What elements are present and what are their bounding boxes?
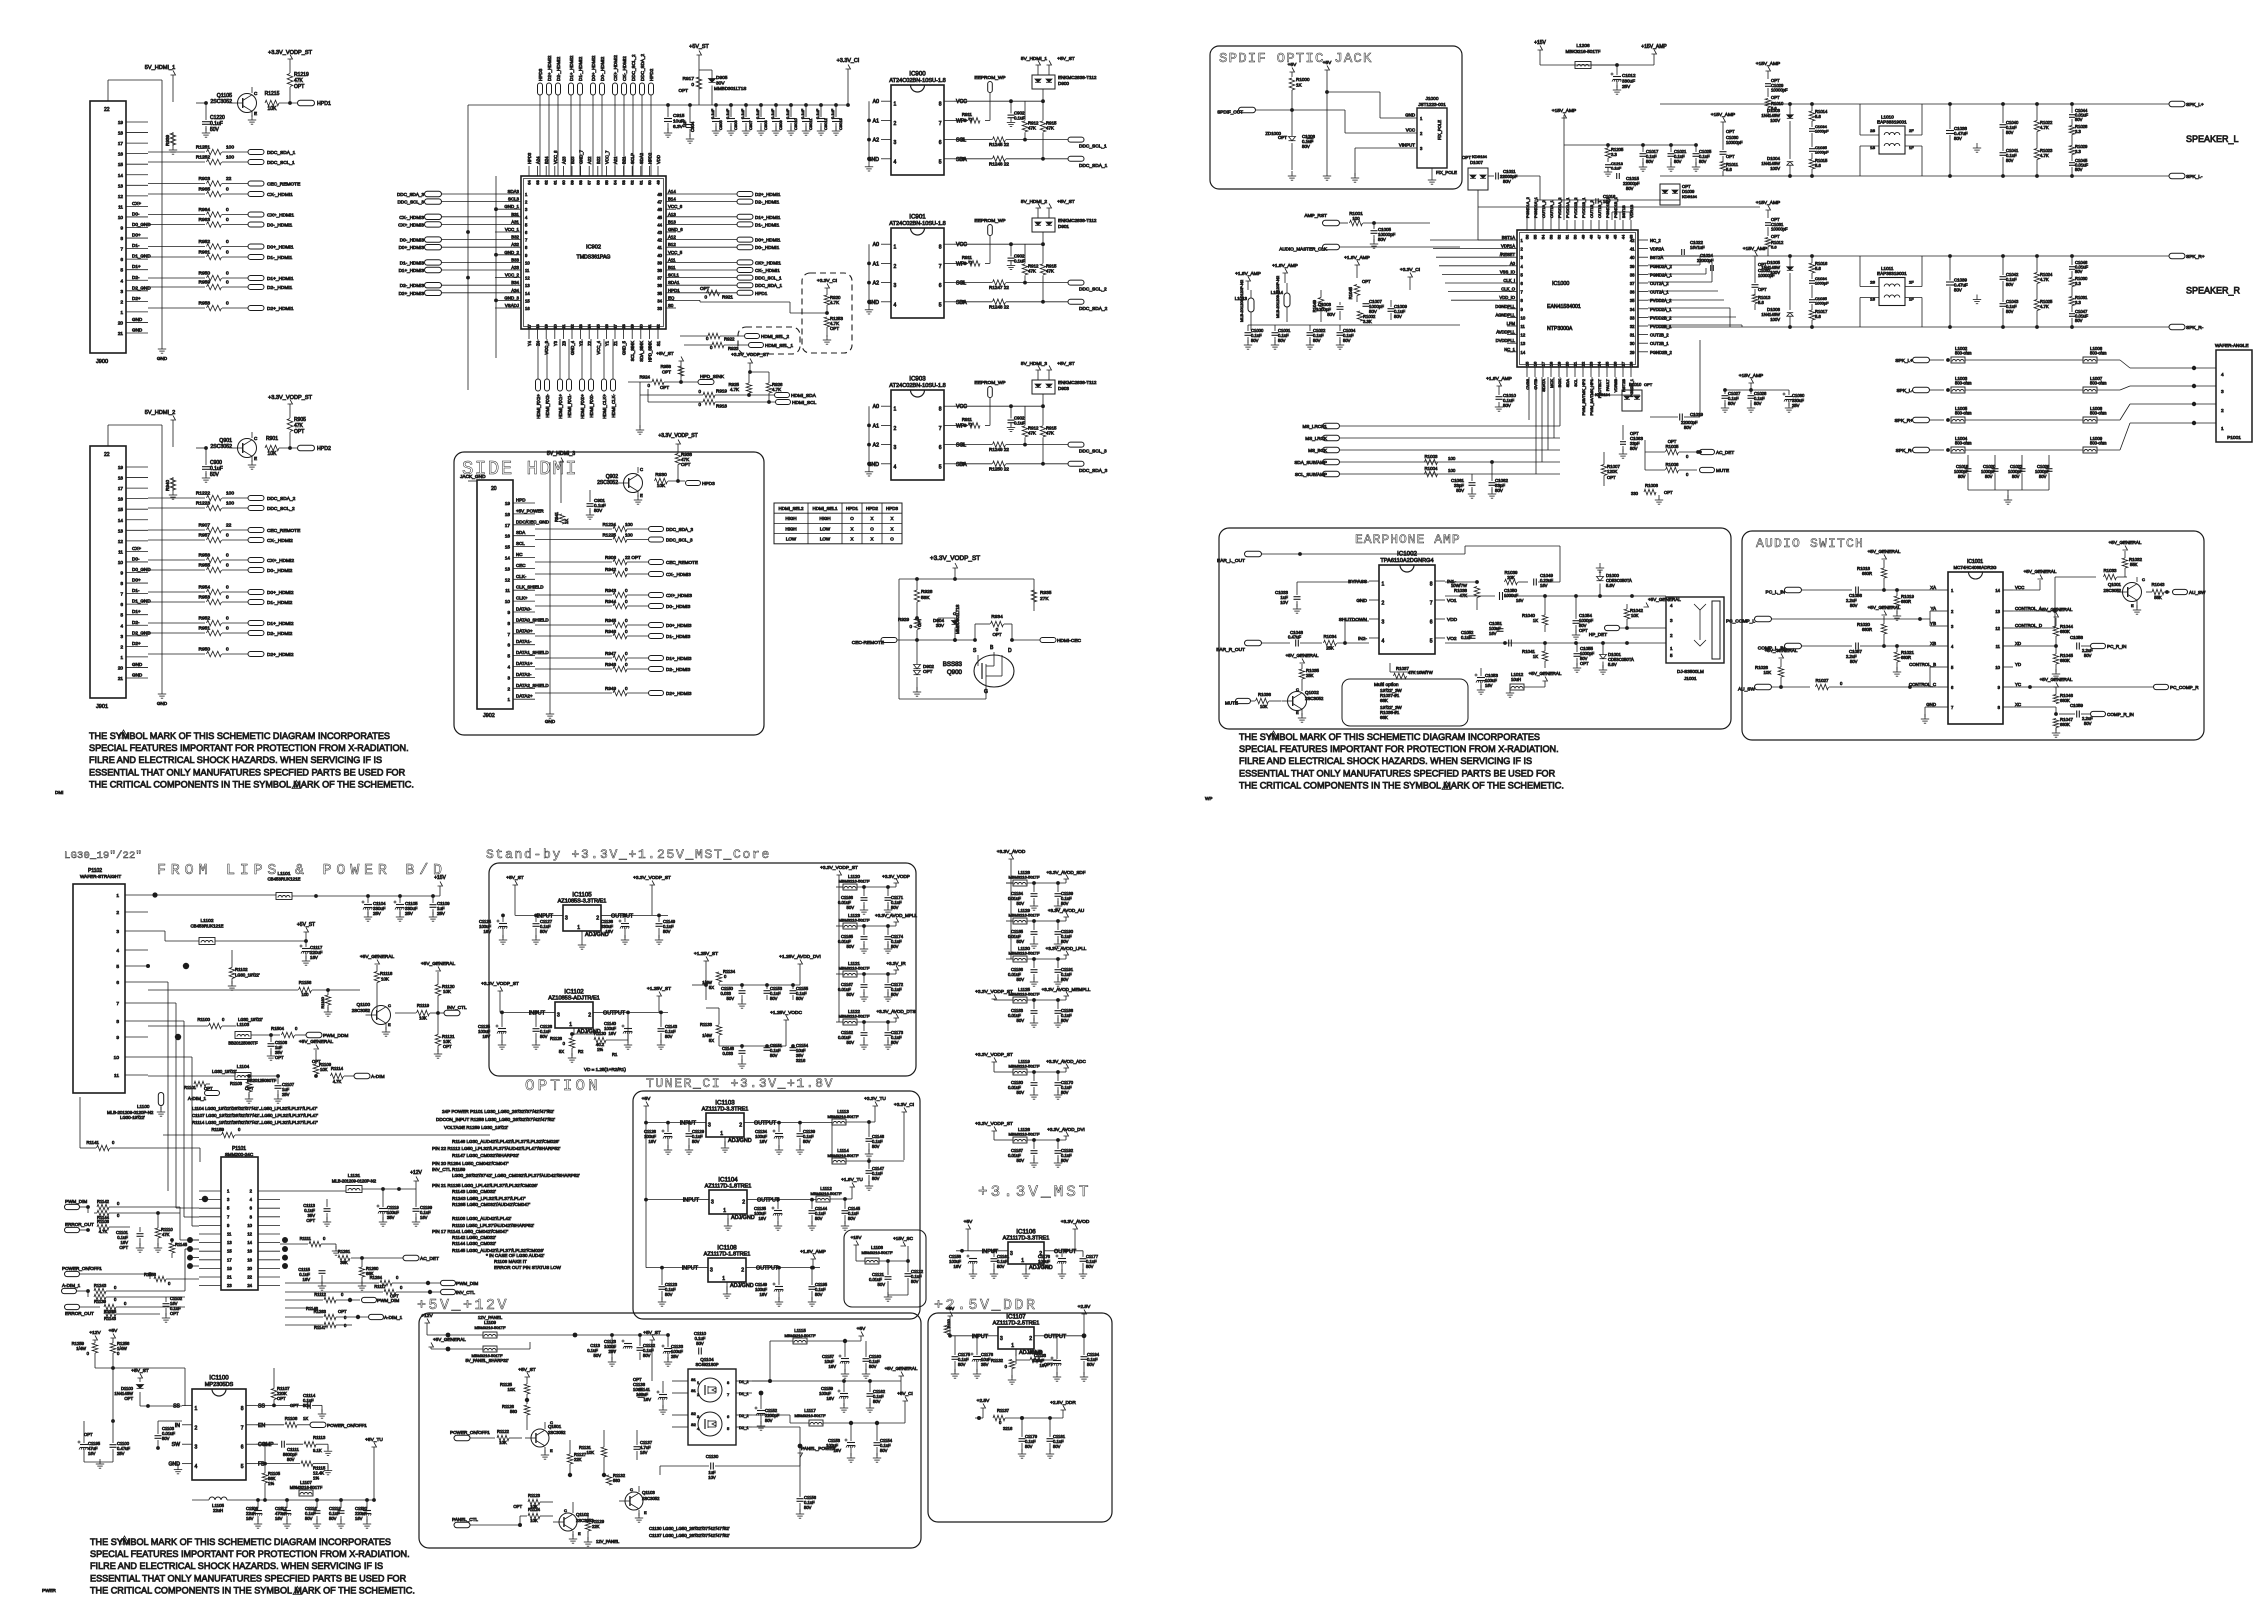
power +3.3V_VODP_ST (DVI) [975, 1121, 1013, 1140]
svg-text:AGNDPLL: AGNDPLL [1495, 312, 1515, 317]
svg-text:3.3: 3.3 [2075, 149, 2081, 154]
capacitor C1011 22000pF 50V [1488, 169, 1540, 184]
svg-text:0: 0 [226, 533, 229, 539]
svg-text:20K: 20K [1507, 575, 1515, 580]
svg-text:+3.3V_AVOD_SDF: +3.3V_AVOD_SDF [1046, 870, 1085, 875]
power +3.3V_VODP_ST (sel) [731, 352, 769, 372]
svg-text:+5V_ST: +5V_ST [506, 875, 524, 881]
net flag SPK_L+ (wafer) [1895, 357, 1950, 364]
capacitor C1106 1uF 35V OPT [267, 1033, 288, 1060]
capacitor C1007 1000pF 50V [1363, 299, 1385, 314]
svg-text:1K: 1K [1296, 83, 1303, 88]
svg-text:E: E [388, 1022, 391, 1027]
power +5V_GENERAL (Q1002) [1286, 653, 1319, 663]
svg-text:SPEAKER_L: SPEAKER_L [2186, 134, 2239, 144]
svg-text:20: 20 [491, 486, 497, 492]
svg-text:* IN CASE OF LG30 AUD42': * IN CASE OF LG30 AUD42' [486, 1253, 544, 1258]
svg-text:+5V_ST: +5V_ST [1057, 361, 1075, 367]
svg-text:2: 2 [120, 299, 123, 304]
power +5V_GENERAL (Q1100) [360, 954, 395, 964]
power +5V_GENERAL (Q1001) [2109, 540, 2142, 550]
resistor R963 0 [148, 217, 248, 227]
resistor R1110 vertical [154, 1211, 174, 1252]
svg-text:3: 3 [2221, 389, 2224, 395]
title EARPHONE AMP [1355, 532, 1461, 547]
svg-text:B32: B32 [511, 235, 519, 240]
svg-text:R1128: R1128 [550, 1036, 563, 1041]
box Stand-by [489, 863, 916, 1076]
svg-text:L1104: L1104 [237, 1064, 250, 1069]
svg-text:3: 3 [120, 634, 123, 639]
svg-text:CX+_HDMI3: CX+_HDMI3 [666, 593, 692, 598]
svg-text:ENKMC2838-T112: ENKMC2838-T112 [1058, 218, 1097, 223]
svg-text:SPK_L-: SPK_L- [2186, 174, 2203, 180]
power +15V (lips) [434, 875, 446, 896]
wire left bus IC901 [865, 244, 873, 314]
svg-text:4.7K: 4.7K [2040, 153, 2049, 158]
svg-text:1: 1 [569, 1022, 572, 1028]
svg-text:2: 2 [1382, 601, 1385, 607]
svg-text:R934: R934 [991, 614, 1003, 620]
capacitor C1033 1uF 10V [1275, 582, 1369, 613]
svg-text:D0-_HDMI2: D0-_HDMI2 [600, 56, 605, 81]
resistor 47K OPT vertical [287, 404, 306, 450]
IC902 right pins 48-33 [657, 189, 683, 311]
power +3.3V_AVOD_SDF [1046, 870, 1085, 883]
svg-text:10K: 10K [320, 1067, 328, 1072]
svg-text:+3.3V_AVOD_MEMPLL: +3.3V_AVOD_MEMPLL [1042, 987, 1091, 992]
box +5V_+12V [419, 1313, 921, 1548]
svg-text:IC1108: IC1108 [717, 1245, 737, 1252]
net flag DDC_SDA_1 (IC900) [1068, 156, 1108, 169]
capacitor C1110 0.1uF 50V (Q1104) [694, 1331, 707, 1355]
net flag HDMI_SDA [775, 393, 817, 400]
svg-text:39: 39 [657, 260, 662, 265]
svg-text:MBM3216-501TF: MBM3216-501TF [827, 1114, 859, 1119]
resistor R1038 47K vertical [1445, 580, 1480, 610]
svg-text:R922: R922 [724, 337, 735, 342]
svg-text:SCL3: SCL3 [508, 197, 520, 202]
capacitor C1103 0.01uF 50V [155, 1421, 183, 1450]
svg-text:+12V: +12V [410, 1170, 422, 1176]
svg-text:D1-_HDMI1: D1-_HDMI1 [755, 222, 780, 227]
svg-text:R946: R946 [605, 629, 616, 634]
svg-text:3.3: 3.3 [2075, 281, 2081, 286]
net flag DDC_SDA_1 [248, 150, 296, 157]
svg-text:7: 7 [939, 264, 942, 270]
svg-text:25V: 25V [1622, 84, 1631, 89]
svg-text:23: 23 [1589, 361, 1594, 366]
svg-text:NC: NC [516, 552, 523, 557]
svg-text:50V: 50V [1061, 1090, 1069, 1095]
ground IC1001 [1921, 707, 1938, 723]
svg-text:35V: 35V [387, 1215, 395, 1220]
capacitor C1172 [884, 974, 904, 1001]
svg-text:+3.3V_TU: +3.3V_TU [864, 1096, 886, 1102]
svg-text:16V: 16V [760, 1292, 768, 1297]
svg-text:SDA_SINK: SDA_SINK [639, 341, 644, 362]
svg-text:17: 17 [1541, 361, 1546, 366]
svg-text:OPT: OPT [306, 1218, 315, 1223]
svg-text:50V: 50V [2039, 474, 2047, 479]
svg-text:16: 16 [247, 1249, 252, 1254]
diode D1000 CD53C050TA 5.6V [1596, 563, 1632, 598]
note C1130/C1137 options [649, 1526, 730, 1538]
svg-text:R1119: R1119 [417, 1003, 430, 1008]
power +3.3V_AVOD (right col) [997, 849, 1026, 959]
svg-text:4.7K: 4.7K [2040, 304, 2049, 309]
svg-text:LG30_19'/22': LG30_19'/22' [212, 1069, 237, 1074]
resistor R1136 OPT diagonal [1016, 1350, 1057, 1367]
net flag SPK_R- (wafer) [1896, 447, 1950, 454]
svg-text:21: 21 [118, 676, 124, 681]
capacitor C1131 0.1uF 50V (top) [587, 1333, 616, 1366]
svg-text:A13: A13 [668, 212, 676, 217]
svg-text:15: 15 [118, 162, 124, 167]
svg-text:50V: 50V [1754, 401, 1762, 406]
svg-text:0.1uF: 0.1uF [830, 108, 835, 119]
svg-text:YB: YB [1930, 621, 1936, 626]
resistor R1040 1K [1522, 594, 1548, 632]
svg-text:+5V_GENERAL: +5V_GENERAL [1868, 605, 1901, 610]
svg-text:47K: 47K [1046, 125, 1054, 130]
resistor R1108 4.7K [97, 1219, 130, 1234]
svg-text:39: 39 [1630, 264, 1635, 269]
ground Q1105 [248, 115, 256, 124]
capacitor C1135 100uF 16V [754, 1198, 782, 1231]
power +12V (box) [421, 1313, 455, 1337]
svg-text:680K: 680K [2060, 629, 2070, 634]
capacitor C1016 [1596, 194, 1616, 204]
net flag HPD_SINK [698, 374, 725, 385]
svg-text:55: 55 [604, 180, 609, 185]
svg-text:4: 4 [1382, 638, 1385, 644]
svg-text:SCL: SCL [516, 541, 525, 546]
svg-text:D0-: D0- [132, 211, 140, 216]
svg-text:2: 2 [2221, 408, 2224, 414]
resistor R1134 0 1/4W 5X [702, 969, 800, 990]
svg-text:0.1uF: 0.1uF [1461, 635, 1472, 640]
svg-text:D0+_HDMI2: D0+_HDMI2 [591, 55, 596, 81]
resistor R1133 1/4W 5X [700, 1008, 786, 1046]
svg-text:50V: 50V [2075, 318, 2083, 323]
svg-text:D1-: D1- [132, 243, 140, 248]
net flag HP_DET [1589, 625, 1666, 637]
capacitor C1153b 100uF 16V [826, 1423, 855, 1462]
svg-text:50V: 50V [1017, 901, 1025, 906]
capacitor C1194 0.1uF 50V [1080, 1336, 1100, 1381]
svg-text:35: 35 [1630, 298, 1635, 303]
svg-text:4: 4 [1670, 603, 1673, 608]
svg-text:/RESET: /RESET [1500, 252, 1516, 257]
svg-text:R953: R953 [199, 595, 211, 601]
svg-text:63: 63 [535, 180, 540, 185]
svg-text:45: 45 [1613, 234, 1618, 239]
net flag CX+_HDMI3 (side) [649, 593, 693, 599]
net flag SPK_L- [2169, 173, 2203, 180]
svg-text:R955: R955 [199, 563, 211, 569]
svg-text:+5V_GENERAL: +5V_GENERAL [2024, 569, 2057, 574]
svg-text:+3.3V_VODP_ST: +3.3V_VODP_ST [481, 981, 519, 987]
svg-text:11: 11 [525, 268, 530, 273]
inductor L1012 10uH [1510, 672, 1545, 690]
net flag D0+_HDMI3 (side) [649, 623, 692, 629]
svg-text:GND_2: GND_2 [504, 250, 519, 255]
power +2.5V_DDR (bottom) [1022, 1400, 1076, 1418]
svg-text:3: 3 [894, 445, 897, 451]
svg-text:R1144 LG30_CM032': R1144 LG30_CM032' [452, 1241, 496, 1246]
svg-text:VDR1A: VDR1A [1501, 244, 1515, 249]
svg-text:R954: R954 [199, 585, 211, 591]
svg-text:OPT: OPT [1758, 262, 1767, 267]
box Multi option [1342, 679, 1468, 726]
svg-text:3216: 3216 [1003, 1426, 1013, 1431]
svg-text:PIN 17 R1141 LG50_CM042'/CM: PIN 17 R1141 LG50_CM042'/CM047' [432, 1229, 508, 1234]
svg-text:50V: 50V [1061, 939, 1069, 944]
svg-text:50V: 50V [1646, 159, 1654, 164]
net flag CX-_HDMI3 (side) [649, 572, 692, 578]
svg-text:20: 20 [118, 665, 124, 670]
svg-text:IC1100: IC1100 [209, 1375, 229, 1382]
svg-text:DDC_SCL_1: DDC_SCL_1 [755, 276, 782, 281]
net flag bundle HDMI_RX outputs (vertical lozenges) [536, 339, 616, 419]
ground spdif caps [1288, 170, 1331, 180]
svg-text:0: 0 [226, 616, 229, 622]
power +5V_ST (sink) [656, 351, 683, 382]
wire speaker rails SPEAKER_L [1660, 104, 2169, 176]
svg-text:OUT1A_2: OUT1A_2 [1541, 199, 1546, 218]
svg-text:25V: 25V [117, 1451, 125, 1456]
resistor R1131 10K vertical [579, 1430, 607, 1477]
svg-text:50V: 50V [1017, 1018, 1025, 1023]
svg-text:SPK_L-: SPK_L- [1896, 388, 1913, 394]
IC regulator IC1102 AZ1085S-ADJTR/E1 [529, 989, 626, 1036]
svg-text:58K: 58K [921, 595, 930, 601]
svg-text:VCC_6: VCC_6 [668, 204, 683, 209]
capacitor C915 10uF 6.3V [664, 103, 685, 137]
svg-text:B23: B23 [570, 156, 575, 164]
power +5V_CI [897, 1391, 912, 1423]
svg-text:8: 8 [939, 245, 942, 251]
svg-text:D0_GND: D0_GND [132, 567, 151, 572]
net flag SPK_L- (wafer) [1896, 387, 1949, 394]
net flag HDMI_SCL [776, 400, 817, 407]
svg-text:20: 20 [552, 324, 557, 329]
svg-text:R959: R959 [199, 280, 211, 286]
svg-text:8: 8 [116, 1019, 119, 1025]
text SPEAKER_R [2186, 286, 2241, 296]
capacitor C1184 [1008, 883, 1038, 910]
resistor R956 0 [148, 553, 248, 563]
svg-text:25K: 25K [1306, 673, 1314, 678]
svg-text:330uF: 330uF [1622, 79, 1635, 84]
svg-text:17: 17 [527, 324, 532, 329]
resistor R1105 56K 1% vertical [262, 1444, 280, 1502]
capacitor C1132 0.1uF 50V (top) [582, 1333, 668, 1360]
jack J1001 DJ-S3500LM [1666, 597, 1724, 681]
capacitor C1149 0.1uF 50V [655, 914, 676, 945]
svg-text:50V: 50V [665, 1034, 673, 1039]
svg-text:D2+: D2+ [132, 296, 141, 301]
svg-text:B11: B11 [668, 265, 676, 270]
svg-text:68K: 68K [1380, 715, 1388, 720]
resistor R938 47K OPT vertical [675, 444, 692, 483]
capacitor C1180 [1008, 1072, 1038, 1099]
resistor R1127 22K vertical [567, 1440, 586, 1477]
svg-text:22uH: 22uH [213, 1508, 223, 1513]
svg-text:R1034: R1034 [1324, 634, 1337, 639]
power +3.3V_TU [864, 1096, 886, 1122]
svg-text:0.1uF: 0.1uF [725, 108, 730, 119]
svg-text:IN2-: IN2- [1358, 636, 1367, 642]
svg-text:50V: 50V [770, 996, 778, 1001]
svg-text:CLK-: CLK- [516, 574, 527, 579]
resistor R1033 [2104, 568, 2128, 580]
IC regulator IC1108 AZ1117D-1.8TRE1 [682, 1245, 779, 1290]
net flag AC_DET (amp) [1696, 449, 1734, 455]
svg-text:R941: R941 [554, 511, 559, 522]
svg-text:VCC_7: VCC_7 [604, 150, 609, 164]
svg-text:PWM_3A/TMK_HP1: PWM_3A/TMK_HP1 [1589, 378, 1594, 415]
power +5V_ST (Q1104) [643, 1330, 661, 1381]
svg-text:10: 10 [505, 599, 511, 604]
svg-text:C915: C915 [673, 113, 685, 119]
svg-text:50V: 50V [162, 1436, 170, 1441]
resistor R1100 0 [148, 1017, 263, 1029]
svg-text:47: 47 [657, 200, 662, 205]
svg-text:23: 23 [578, 324, 583, 329]
svg-text:DDC_SCL_3: DDC_SCL_3 [397, 200, 424, 205]
resistor R965 0 [148, 187, 248, 197]
resistor R1247 22 (IC901) [954, 280, 1068, 290]
power 5V_HDMI_1 [145, 65, 176, 102]
svg-text:0: 0 [625, 662, 628, 667]
svg-text:HPD1: HPD1 [668, 288, 680, 293]
svg-text:16V: 16V [1043, 1264, 1051, 1269]
svg-text:VCC: VCC [956, 99, 967, 105]
svg-text:J902: J902 [483, 713, 495, 719]
svg-text:R1112: R1112 [314, 1292, 326, 1297]
svg-text:4: 4 [894, 302, 897, 308]
power +5V_GENERAL (XC) [2040, 677, 2073, 688]
svg-text:3.3: 3.3 [2075, 300, 2081, 305]
svg-text:0: 0 [625, 599, 628, 604]
svg-text:20: 20 [1565, 361, 1570, 366]
svg-text:4.7K: 4.7K [772, 387, 781, 392]
svg-text:50V: 50V [727, 996, 735, 1001]
capacitor C1158 100uF 16V [949, 1254, 977, 1278]
wire ctrl bus verticals [1529, 377, 1560, 474]
power +15V_AMP mid-left [1711, 112, 1743, 176]
wire vertical bus J901 [108, 425, 162, 678]
svg-text:HDMI_RX0+: HDMI_RX0+ [580, 394, 585, 419]
svg-text:3: 3 [894, 140, 897, 146]
svg-text:IC1102: IC1102 [564, 989, 584, 996]
svg-text:VDR8B: VDR8B [1613, 379, 1618, 393]
diode pair D1005 D1006 1N4148W [1761, 254, 1793, 329]
svg-text:DATA2-: DATA2- [516, 672, 532, 677]
power +1.8V_AMP (left) [1344, 255, 1370, 278]
svg-text:CONTROL_C: CONTROL_C [1909, 682, 1936, 687]
svg-text:3: 3 [894, 283, 897, 289]
svg-text:0: 0 [226, 271, 229, 277]
svg-text:29: 29 [1630, 350, 1635, 355]
svg-text:R1: R1 [612, 1052, 618, 1057]
power +3.3V_VODP_ST (MEMPLL) [975, 989, 1013, 1000]
capacitor C1161 0.1uF 50V [990, 1249, 1010, 1278]
svg-text:50V: 50V [665, 1292, 673, 1297]
diode D905 MMBD301LT1S [699, 70, 746, 105]
svg-text:13: 13 [525, 283, 530, 288]
svg-text:OUTPUT: OUTPUT [603, 1010, 626, 1016]
svg-text:16V: 16V [483, 1034, 491, 1039]
svg-text:A1: A1 [873, 261, 879, 267]
svg-text:KDS184: KDS184 [1682, 194, 1698, 199]
svg-text:+3.3V_AVOD_DVI: +3.3V_AVOD_DVI [1047, 1127, 1085, 1132]
inductor L1101 CB453RUK121E [148, 871, 440, 900]
transistor Q1105 2SC3052 [196, 87, 258, 117]
inductor L1003 500-ohm [1951, 376, 2083, 393]
svg-text:36: 36 [1630, 290, 1635, 295]
svg-text:THE SYMBOL MARK OF THIS SC: THE SYMBOL MARK OF THIS SCHEMETIC DIAGRA… [89, 731, 390, 741]
svg-text:33: 33 [1630, 315, 1635, 320]
svg-text:5: 5 [939, 159, 942, 165]
svg-text:DDC_SDA_2: DDC_SDA_2 [640, 53, 645, 81]
resistor R1123 10K [513, 1493, 553, 1509]
svg-text:VOLTAGE R1259 LG30_19'/22: VOLTAGE R1259 LG30_19'/22' [444, 1125, 508, 1130]
diode pair D1003 D1004 1N4148W [1761, 102, 1793, 178]
svg-text:B12: B12 [668, 242, 676, 247]
svg-text:HPD_SINK: HPD_SINK [647, 341, 652, 362]
svg-text:B22: B22 [596, 156, 601, 164]
svg-text:C1019: C1019 [1690, 412, 1703, 417]
svg-text:C1107 LG30_19'/22'/26'/32'/37': C1107 LG30_19'/22'/26'/32'/37'/42'..LG50… [192, 1113, 318, 1118]
svg-text:O: O [870, 526, 874, 531]
inductor L1014 MLB-201209 [1271, 275, 1290, 322]
capacitor C1105 330uF 25V [394, 894, 419, 921]
resistor R1019 680R pulldown [1893, 590, 1915, 620]
svg-text:+5V: +5V [964, 1219, 973, 1225]
wire BST1A net [1478, 176, 1540, 240]
inductor L1110 MBM3216-501TF 5V_PANEL [455, 1342, 530, 1363]
svg-text:PWM_DDM: PWM_DDM [323, 1033, 348, 1039]
svg-text:VINPUT: VINPUT [1399, 143, 1415, 148]
transformer L1011 EAP38319001 [1860, 256, 1922, 327]
svg-text:PIN 22 R1112 LG50_LPL32'/LP: PIN 22 R1112 LG50_LPL32'/LPL37'/AUD42'/L… [432, 1146, 560, 1151]
svg-text:C9010: C9010 [793, 117, 798, 130]
caps 0.1uF pair (SPEAKER_R) [1973, 254, 2019, 329]
inductor L1115 MBM3216-501TF [752, 1328, 861, 1381]
svg-text:A0: A0 [873, 242, 879, 248]
svg-text:OPT: OPT [1644, 382, 1653, 387]
svg-text:SCL: SCL [956, 138, 966, 144]
svg-text:OPT: OPT [294, 84, 304, 90]
svg-text:0.1uF: 0.1uF [785, 108, 790, 119]
svg-text:OUT2A_1: OUT2A_1 [1650, 290, 1669, 295]
resistor R1258 1/4W 0 [95, 1341, 185, 1370]
net flag COMP_R_IN [2091, 711, 2134, 717]
svg-text:D0+_HDMI2: D0+_HDMI2 [267, 590, 294, 596]
svg-text:HPD1: HPD1 [846, 506, 859, 511]
power +3.3V_AVOD_DVI [1047, 1127, 1085, 1140]
svg-text:MBM3216-501TF: MBM3216-501TF [838, 1014, 870, 1019]
svg-text:500-ohm: 500-ohm [1955, 411, 1972, 416]
svg-text:14: 14 [118, 518, 124, 523]
svg-text:0: 0 [226, 280, 229, 286]
svg-text:16V: 16V [954, 1264, 962, 1269]
svg-text:+5V_ST: +5V_ST [1057, 199, 1075, 205]
wire pin stubs J900 [118, 120, 151, 336]
